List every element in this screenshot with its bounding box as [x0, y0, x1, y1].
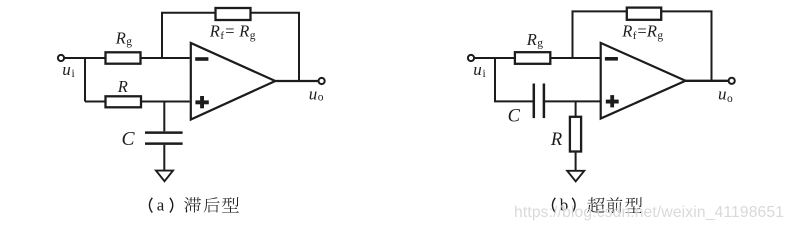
svg-text:g: g — [126, 36, 132, 48]
wire node to capacitor (a) — [163, 102, 165, 132]
wire R to noninverting input (a) — [141, 101, 190, 103]
svg-text:R: R — [526, 30, 537, 49]
resistor Rf (a) — [216, 8, 251, 20]
wire junction to R (a) — [85, 101, 106, 103]
wire output (b) — [686, 80, 729, 82]
svg-text:g: g — [657, 30, 663, 42]
svg-text:u: u — [62, 60, 71, 79]
svg-text:R: R — [115, 29, 126, 48]
svg-text:f: f — [633, 30, 637, 42]
svg-text:R: R — [238, 22, 249, 41]
wire feedback left vertical (b) — [572, 11, 574, 58]
caption (b) left parenthesis — [552, 198, 555, 213]
svg-text:R: R — [550, 130, 562, 150]
terminal ui (b) — [468, 55, 474, 61]
caption (a) left parenthesis — [149, 198, 152, 213]
resistor R (a) — [106, 96, 142, 107]
op-amp U1 minus sign (a) — [195, 57, 208, 61]
ground (a) — [156, 171, 173, 182]
svg-text:f: f — [220, 30, 224, 42]
svg-text:R: R — [646, 22, 657, 41]
svg-text:u: u — [473, 60, 482, 79]
svg-text:u: u — [718, 85, 727, 104]
svg-text:R: R — [209, 22, 220, 41]
wire capacitor to noninverting input (b) — [544, 100, 601, 102]
capacitor C (a) — [145, 133, 183, 144]
wire feedback left vertical (a) — [161, 13, 163, 58]
op-amp U2 minus sign (b) — [605, 57, 618, 61]
caption (a) char zhi — [184, 197, 201, 212]
svg-text:=: = — [637, 22, 646, 41]
svg-text:C: C — [122, 129, 136, 150]
svg-text:u: u — [309, 84, 318, 103]
terminal ui (a) — [58, 55, 64, 61]
svg-text:R: R — [621, 22, 632, 41]
wire feedback right vertical to output (a) — [298, 13, 300, 81]
wire feedback top right segment (b) — [661, 10, 712, 12]
caption (b) char xing2 — [625, 197, 642, 213]
terminal uo (b) — [729, 78, 735, 84]
wire junction vertical down to C branch (b) — [494, 57, 534, 102]
svg-text:a: a — [157, 196, 165, 215]
op-amp U2 plus sign (b) — [606, 95, 619, 107]
op-amp U1 plus sign (a) — [195, 96, 208, 108]
wire input to Rg (a) — [64, 57, 105, 59]
wire Rg to inverting input (a) — [141, 57, 190, 59]
wire feedback top left segment (b) — [572, 10, 627, 12]
wire feedback top right segment (a) — [251, 12, 301, 14]
wire output (a) — [275, 80, 318, 82]
wire feedback top left segment (a) — [161, 12, 216, 14]
resistor R (b) — [570, 117, 581, 152]
wire Rg to inverting input (b) — [550, 57, 600, 59]
watermark text — [514, 205, 784, 221]
svg-text:C: C — [508, 107, 521, 127]
capacitor C (b) — [534, 84, 544, 119]
terminal uo (a) — [319, 78, 325, 84]
svg-text:g: g — [250, 30, 256, 42]
wire node down to R (b) — [575, 101, 577, 116]
resistor Rf (b) — [627, 8, 661, 20]
caption (b) char chao — [587, 197, 605, 213]
wire R to ground (b) — [575, 152, 577, 172]
svg-text:o: o — [727, 93, 733, 105]
wire input to Rg (b) — [474, 57, 515, 59]
caption (b) right parenthesis — [572, 198, 575, 213]
svg-text:g: g — [537, 37, 543, 49]
resistor Rg (b) — [515, 52, 550, 64]
wire junction vertical down to R branch (a) — [84, 57, 86, 102]
svg-text:i: i — [72, 68, 75, 80]
svg-text:o: o — [318, 91, 324, 103]
resistor Rg (a) — [106, 52, 141, 63]
op-amp U1 (a) — [191, 43, 275, 120]
ground (b) — [567, 171, 584, 182]
caption (b) char qian — [607, 197, 623, 213]
caption (a) char xing — [222, 197, 239, 212]
caption (a) char hou — [204, 197, 220, 212]
svg-text:R: R — [117, 77, 128, 96]
op-amp U2 (b) — [601, 43, 686, 119]
wire capacitor to ground (a) — [163, 145, 165, 172]
wire feedback right vertical to output (b) — [711, 11, 713, 80]
caption (a) right parenthesis — [170, 198, 173, 213]
svg-text:i: i — [483, 68, 486, 80]
svg-text:=: = — [225, 22, 234, 41]
